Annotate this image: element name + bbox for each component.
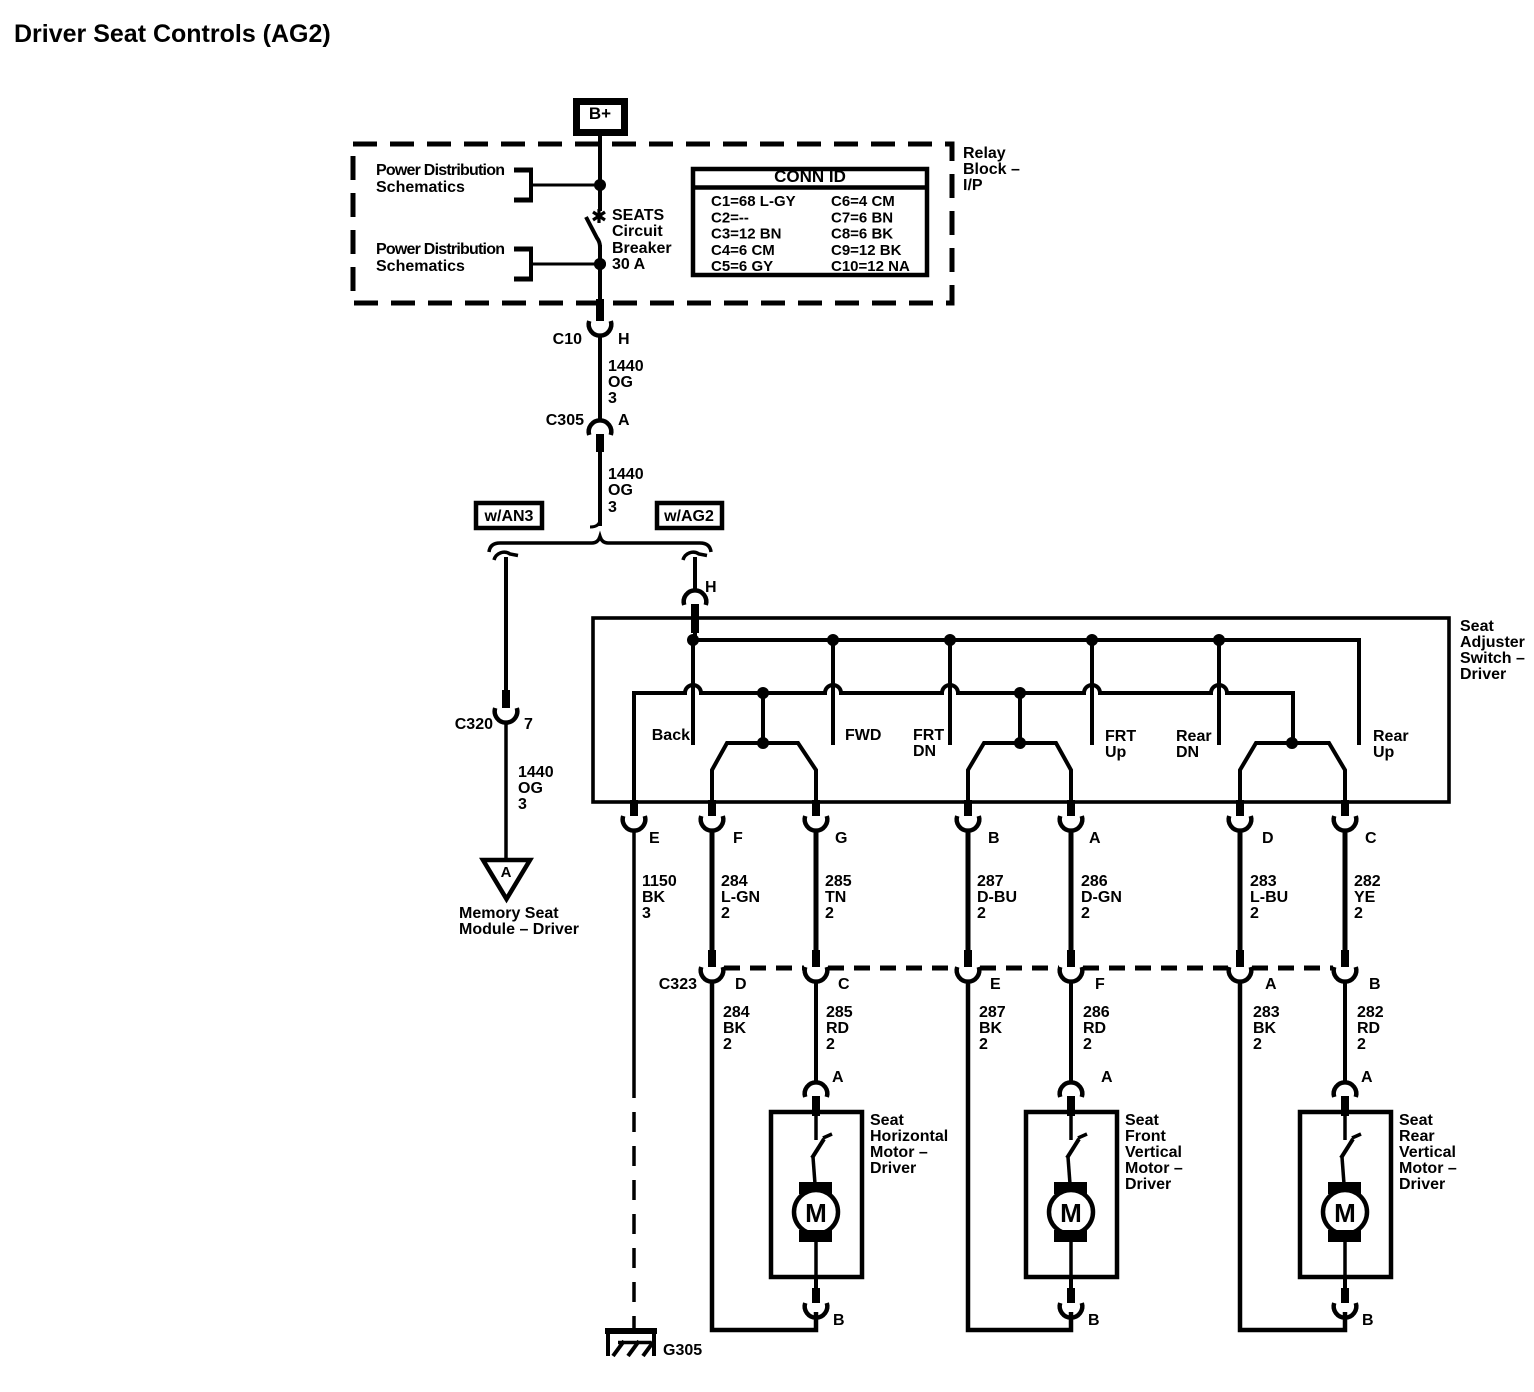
svg-text:B: B bbox=[1369, 976, 1381, 993]
svg-text:7: 7 bbox=[524, 716, 533, 733]
svg-text:M: M bbox=[1334, 1198, 1356, 1228]
svg-text:BK: BK bbox=[723, 1020, 747, 1037]
svg-text:2: 2 bbox=[826, 1036, 835, 1053]
svg-text:B+: B+ bbox=[589, 104, 611, 123]
svg-text:C1=68 L-GY: C1=68 L-GY bbox=[711, 193, 796, 210]
svg-text:Seat: Seat bbox=[870, 1112, 904, 1129]
svg-text:2: 2 bbox=[1357, 1036, 1366, 1053]
svg-text:C10: C10 bbox=[553, 331, 582, 348]
svg-text:OG: OG bbox=[518, 780, 543, 797]
svg-text:A: A bbox=[1361, 1069, 1373, 1086]
svg-text:Seat: Seat bbox=[1460, 618, 1494, 635]
svg-text:OG: OG bbox=[608, 374, 633, 391]
svg-text:286: 286 bbox=[1081, 873, 1108, 890]
svg-text:285: 285 bbox=[826, 1004, 853, 1021]
svg-text:286: 286 bbox=[1083, 1004, 1110, 1021]
svg-text:Driver Seat Controls (AG2): Driver Seat Controls (AG2) bbox=[14, 20, 331, 48]
svg-text:Rear: Rear bbox=[1176, 728, 1212, 745]
svg-text:287: 287 bbox=[977, 873, 1004, 890]
svg-text:D-GN: D-GN bbox=[1081, 889, 1122, 906]
svg-text:C3=12 BN: C3=12 BN bbox=[711, 226, 781, 243]
svg-text:Motor –: Motor – bbox=[1125, 1160, 1183, 1177]
svg-text:Seat: Seat bbox=[1125, 1112, 1159, 1129]
svg-text:Breaker: Breaker bbox=[612, 240, 672, 257]
svg-text:A: A bbox=[1265, 976, 1277, 993]
svg-text:B: B bbox=[1088, 1312, 1100, 1329]
svg-text:E: E bbox=[649, 830, 660, 847]
svg-text:282: 282 bbox=[1354, 873, 1381, 890]
svg-text:C6=4 CM: C6=4 CM bbox=[831, 193, 895, 210]
svg-text:3: 3 bbox=[518, 796, 527, 813]
svg-text:Up: Up bbox=[1373, 744, 1395, 761]
svg-text:B: B bbox=[988, 830, 1000, 847]
svg-text:2: 2 bbox=[1253, 1036, 1262, 1053]
svg-text:Switch –: Switch – bbox=[1460, 650, 1525, 667]
svg-text:C2=--: C2=-- bbox=[711, 209, 749, 226]
svg-text:CONN ID: CONN ID bbox=[774, 167, 846, 186]
svg-text:Block –: Block – bbox=[963, 161, 1020, 178]
svg-text:C4=6 CM: C4=6 CM bbox=[711, 242, 775, 259]
svg-text:H: H bbox=[705, 579, 717, 596]
svg-text:Adjuster: Adjuster bbox=[1460, 634, 1525, 651]
svg-text:3: 3 bbox=[642, 905, 651, 922]
svg-text:C320: C320 bbox=[455, 716, 493, 733]
svg-text:w/AG2: w/AG2 bbox=[663, 508, 714, 525]
svg-text:Driver: Driver bbox=[870, 1160, 916, 1177]
svg-text:Rear: Rear bbox=[1373, 728, 1409, 745]
svg-text:DN: DN bbox=[913, 743, 936, 760]
svg-text:Power Distribution: Power Distribution bbox=[376, 241, 505, 258]
svg-text:A: A bbox=[1089, 830, 1101, 847]
svg-text:C305: C305 bbox=[546, 412, 584, 429]
svg-text:C10=12 NA: C10=12 NA bbox=[831, 258, 910, 275]
svg-text:30 A: 30 A bbox=[612, 256, 646, 273]
svg-text:1150: 1150 bbox=[642, 873, 677, 890]
svg-text:B: B bbox=[833, 1312, 845, 1329]
svg-text:Motor –: Motor – bbox=[1399, 1160, 1457, 1177]
svg-text:284: 284 bbox=[721, 873, 748, 890]
svg-text:282: 282 bbox=[1357, 1004, 1384, 1021]
svg-text:G: G bbox=[835, 830, 847, 847]
svg-text:Power Distribution: Power Distribution bbox=[376, 162, 505, 179]
svg-text:1440: 1440 bbox=[608, 358, 644, 375]
svg-text:2: 2 bbox=[721, 905, 730, 922]
svg-text:D: D bbox=[1262, 830, 1274, 847]
svg-text:C323: C323 bbox=[659, 976, 697, 993]
svg-text:2: 2 bbox=[979, 1036, 988, 1053]
svg-text:Front: Front bbox=[1125, 1128, 1167, 1145]
svg-text:DN: DN bbox=[1176, 744, 1199, 761]
svg-text:FRT: FRT bbox=[1105, 728, 1136, 745]
svg-text:B: B bbox=[1362, 1312, 1374, 1329]
svg-text:TN: TN bbox=[825, 889, 846, 906]
svg-text:C7=6 BN: C7=6 BN bbox=[831, 209, 893, 226]
svg-text:BK: BK bbox=[979, 1020, 1003, 1037]
svg-text:2: 2 bbox=[1250, 905, 1259, 922]
svg-text:RD: RD bbox=[1083, 1020, 1106, 1037]
svg-text:BK: BK bbox=[1253, 1020, 1277, 1037]
svg-text:Memory Seat: Memory Seat bbox=[459, 905, 559, 922]
svg-text:w/AN3: w/AN3 bbox=[484, 508, 534, 525]
svg-text:G305: G305 bbox=[663, 1342, 702, 1359]
svg-text:F: F bbox=[1095, 976, 1105, 993]
svg-text:1440: 1440 bbox=[518, 764, 554, 781]
svg-text:FRT: FRT bbox=[913, 727, 944, 744]
svg-text:Rear: Rear bbox=[1399, 1128, 1435, 1145]
svg-text:C: C bbox=[838, 976, 850, 993]
svg-text:284: 284 bbox=[723, 1004, 750, 1021]
svg-text:287: 287 bbox=[979, 1004, 1006, 1021]
svg-text:Back: Back bbox=[652, 727, 690, 744]
svg-text:SEATS: SEATS bbox=[612, 207, 664, 224]
svg-text:3: 3 bbox=[608, 390, 617, 407]
svg-text:RD: RD bbox=[826, 1020, 849, 1037]
svg-text:A: A bbox=[832, 1069, 844, 1086]
svg-text:D-BU: D-BU bbox=[977, 889, 1017, 906]
svg-text:2: 2 bbox=[977, 905, 986, 922]
svg-text:283: 283 bbox=[1253, 1004, 1280, 1021]
svg-text:Schematics: Schematics bbox=[376, 179, 465, 196]
svg-text:283: 283 bbox=[1250, 873, 1277, 890]
svg-text:2: 2 bbox=[723, 1036, 732, 1053]
svg-text:L-GN: L-GN bbox=[721, 889, 760, 906]
svg-text:285: 285 bbox=[825, 873, 852, 890]
svg-text:OG: OG bbox=[608, 482, 633, 499]
svg-text:2: 2 bbox=[1354, 905, 1363, 922]
svg-text:C: C bbox=[1365, 830, 1377, 847]
svg-text:Driver: Driver bbox=[1399, 1176, 1445, 1193]
svg-text:Up: Up bbox=[1105, 744, 1127, 761]
svg-text:M: M bbox=[805, 1198, 827, 1228]
svg-text:Motor –: Motor – bbox=[870, 1144, 928, 1161]
svg-text:D: D bbox=[735, 976, 747, 993]
svg-text:I/P: I/P bbox=[963, 177, 983, 194]
svg-text:Horizontal: Horizontal bbox=[870, 1128, 948, 1145]
svg-text:Driver: Driver bbox=[1125, 1176, 1171, 1193]
svg-text:FWD: FWD bbox=[845, 727, 881, 744]
svg-text:C5=6 GY: C5=6 GY bbox=[711, 258, 773, 275]
svg-text:A: A bbox=[1101, 1069, 1113, 1086]
svg-text:Seat: Seat bbox=[1399, 1112, 1433, 1129]
svg-text:C9=12 BK: C9=12 BK bbox=[831, 242, 902, 259]
svg-text:A: A bbox=[501, 864, 512, 881]
svg-text:YE: YE bbox=[1354, 889, 1376, 906]
svg-text:H: H bbox=[618, 331, 630, 348]
svg-text:L-BU: L-BU bbox=[1250, 889, 1288, 906]
svg-text:A: A bbox=[618, 412, 630, 429]
svg-text:Driver: Driver bbox=[1460, 666, 1506, 683]
svg-text:BK: BK bbox=[642, 889, 666, 906]
svg-text:F: F bbox=[733, 830, 743, 847]
svg-text:Module – Driver: Module – Driver bbox=[459, 921, 579, 938]
svg-text:2: 2 bbox=[825, 905, 834, 922]
svg-text:Vertical: Vertical bbox=[1399, 1144, 1456, 1161]
svg-text:1440: 1440 bbox=[608, 466, 644, 483]
svg-text:Relay: Relay bbox=[963, 145, 1006, 162]
svg-text:RD: RD bbox=[1357, 1020, 1380, 1037]
svg-text:E: E bbox=[990, 976, 1001, 993]
svg-text:Schematics: Schematics bbox=[376, 258, 465, 275]
svg-text:3: 3 bbox=[608, 499, 617, 516]
svg-text:2: 2 bbox=[1083, 1036, 1092, 1053]
svg-text:C8=6 BK: C8=6 BK bbox=[831, 226, 893, 243]
svg-text:Circuit: Circuit bbox=[612, 223, 663, 240]
svg-text:M: M bbox=[1060, 1198, 1082, 1228]
svg-text:Vertical: Vertical bbox=[1125, 1144, 1182, 1161]
svg-text:2: 2 bbox=[1081, 905, 1090, 922]
